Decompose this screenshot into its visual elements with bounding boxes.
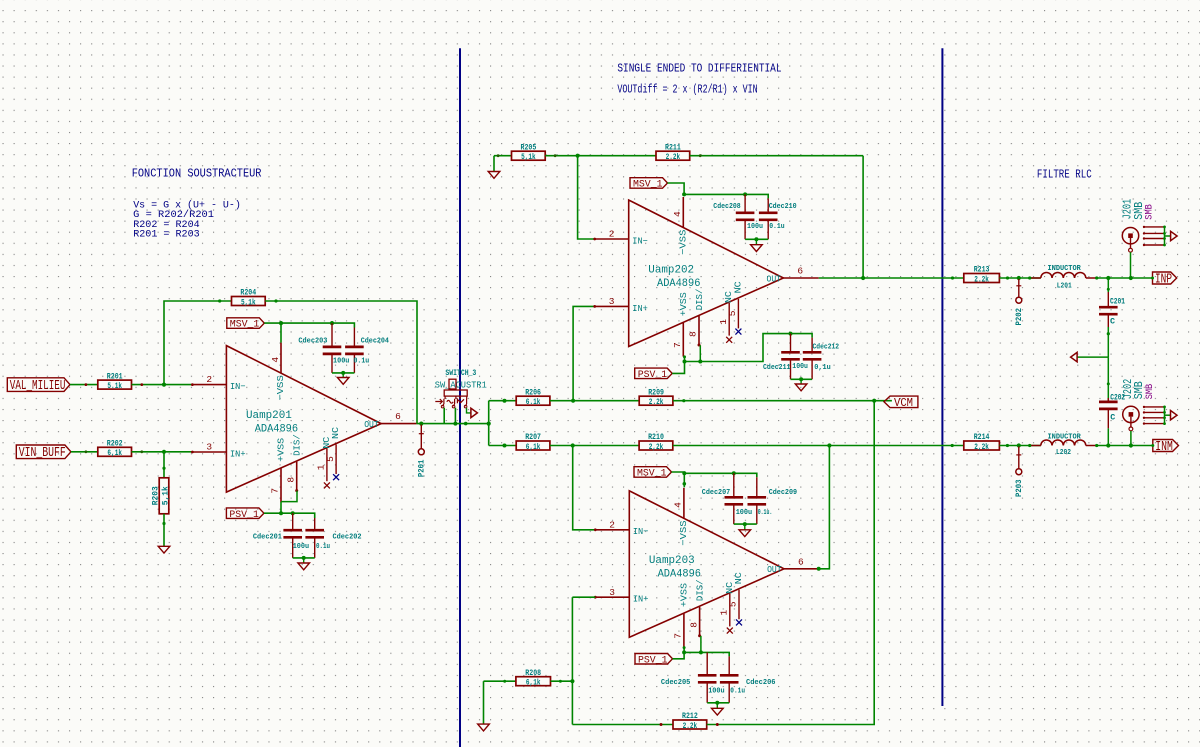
svg-text:6.1k: 6.1k: [526, 397, 541, 407]
svg-text:PSV_1: PSV_1: [638, 370, 668, 381]
svg-text:DIS/: DIS/: [292, 434, 303, 456]
svg-text:+VSS: +VSS: [679, 583, 690, 607]
junction MSV pin4: [279, 321, 283, 325]
svg-text:100u: 100u: [708, 688, 725, 696]
svg-text:VIN_BUFF: VIN_BUFF: [19, 446, 66, 461]
resistor R207: [516, 433, 550, 452]
svg-text:3: 3: [609, 296, 615, 307]
svg-text:C: C: [1110, 412, 1115, 422]
ground below Cdec201/202: [303, 558, 305, 563]
power flag MSV_1 (Uamp202): [630, 178, 668, 191]
svg-text:6: 6: [798, 556, 804, 567]
junction pin7 PSV 203: [682, 650, 686, 654]
svg-text:IN−: IN−: [632, 235, 648, 246]
wire vertical between line A and line B: [488, 401, 490, 446]
svg-text:R214: R214: [974, 433, 990, 442]
svg-text:5: 5: [325, 456, 336, 462]
wire switch pin2 down: [454, 408, 456, 424]
wire switch pin3 to arrow: [467, 408, 471, 413]
capacitor Cdec202: [305, 518, 324, 558]
net label INP: [1153, 272, 1177, 287]
svg-text:R201 = R203: R201 = R203: [133, 229, 200, 240]
wire line A left: [489, 400, 517, 402]
junction line B left: [503, 444, 507, 448]
svg-text:INM: INM: [1155, 440, 1173, 455]
svg-text:NC: NC: [733, 572, 744, 584]
wire R211 to feedback vertical: [690, 155, 863, 157]
svg-text:OUT: OUT: [364, 419, 379, 430]
svg-text:DIS/: DIS/: [695, 579, 706, 601]
resistor R212: [673, 712, 707, 731]
wire switch pin1 down: [443, 408, 445, 424]
junction C202 bottom: [1106, 443, 1110, 447]
svg-text:Cdec201: Cdec201: [253, 534, 283, 542]
svg-text:MSV_1: MSV_1: [637, 469, 667, 480]
op-amp Uamp201 ADA4896: [191, 343, 416, 503]
svg-text:R204: R204: [240, 289, 256, 298]
ground below Cdec208/210: [755, 239, 757, 244]
svg-text:2.2k: 2.2k: [974, 274, 989, 284]
wire R214 to INM: [999, 445, 1040, 447]
junction Cdec203 top: [330, 321, 334, 325]
wire J202 shield: [1164, 407, 1166, 424]
svg-text:OUT: OUT: [767, 564, 782, 575]
svg-text:ADA4896: ADA4896: [657, 278, 700, 290]
svg-text:Cdec209: Cdec209: [769, 489, 797, 497]
wire OUT of Uamp203: [819, 446, 829, 569]
section divider line right: [941, 48, 943, 706]
junction Cdec208 top: [743, 192, 747, 196]
power flag PSV_1 (Uamp201): [226, 508, 264, 521]
resistor R206: [516, 388, 550, 407]
svg-text:IN+: IN+: [230, 448, 246, 459]
wire C202 bottom to INM line: [1107, 428, 1109, 445]
svg-text:6,1k: 6,1k: [526, 678, 541, 688]
svg-text:NC: NC: [732, 281, 743, 293]
junction OUT 203: [817, 567, 821, 571]
resistor R204: [232, 289, 266, 308]
test point P202: [1014, 279, 1024, 326]
wire IN+ node (203): [572, 596, 595, 598]
svg-text:100u: 100u: [333, 358, 349, 366]
wire feedback up to R204: [164, 301, 232, 385]
svg-text:−VSS: −VSS: [678, 520, 689, 546]
svg-text:0.1u: 0.1u: [316, 543, 330, 551]
junction pin7 PSV 202: [683, 360, 687, 364]
svg-text:3: 3: [609, 587, 615, 598]
svg-text:PSV_1: PSV_1: [229, 510, 259, 521]
junction J202 drop: [1129, 443, 1133, 447]
svg-text:ADA4896: ADA4896: [658, 569, 701, 581]
inductor L201: [1041, 272, 1086, 278]
wire R206 to R209: [550, 400, 639, 402]
svg-text:Cdec204: Cdec204: [361, 337, 390, 345]
junction Uamp203 IN- tap: [571, 443, 575, 447]
svg-text:R201: R201: [107, 372, 123, 381]
svg-text:0.1u: 0.1u: [354, 358, 370, 366]
svg-text:VOUTdiff = 2 x (R2/R1) x VIN: VOUTdiff = 2 x (R2/R1) x VIN: [617, 83, 757, 96]
wire R207 to R210: [550, 445, 639, 447]
wire R213 to INP: [999, 277, 1040, 279]
svg-text:+VSS: +VSS: [678, 292, 689, 316]
junction Cdec207 top: [732, 471, 736, 475]
svg-text:ADA4896: ADA4896: [255, 423, 298, 435]
capacitor C202: [1099, 398, 1118, 428]
svg-text:100u: 100u: [747, 223, 763, 231]
wire R208 line: [484, 680, 516, 682]
svg-text:2.2k: 2.2k: [666, 152, 681, 162]
svg-text:2,2k: 2,2k: [974, 442, 989, 452]
wire caps bottom to ground (left PSV): [293, 557, 315, 559]
wire R204 to OUT node: [265, 301, 417, 424]
wire ground to R205: [494, 155, 512, 157]
wire IN- tap down to pin 2 (203): [573, 446, 596, 530]
svg-text:SW_ACUSTR1: SW_ACUSTR1: [435, 380, 487, 390]
svg-text:100u: 100u: [792, 363, 808, 371]
svg-text:SINGLE ENDED TO DIFFERIENTIAL: SINGLE ENDED TO DIFFERIENTIAL: [617, 63, 781, 76]
inductor L202: [1041, 440, 1086, 446]
svg-text:P201: P201: [417, 460, 427, 478]
svg-text:8: 8: [688, 622, 699, 628]
net label VCM: [884, 396, 918, 410]
junction R203 tap: [162, 450, 166, 454]
wire R203 to ground: [163, 514, 165, 547]
power flag PSV_1 (Uamp203): [635, 654, 673, 667]
junction Cdec201 top: [291, 511, 295, 515]
svg-text:Cdec207: Cdec207: [702, 489, 730, 497]
resistor R203: [151, 478, 171, 514]
junction P203 tap: [1017, 443, 1021, 447]
wire caps bottom (203 PSV): [707, 702, 729, 704]
svg-text:Uamp202: Uamp202: [648, 264, 694, 276]
svg-text:INDUCTOR: INDUCTOR: [1048, 434, 1082, 442]
ground below Cdec205/206: [716, 703, 718, 709]
svg-text:R211: R211: [665, 143, 681, 152]
ground below Cdec203/204: [342, 373, 344, 378]
wire pin7/pin8 to PSV rail: [281, 491, 297, 502]
svg-text:5,1k: 5,1k: [241, 297, 256, 307]
svg-text:5,1k: 5,1k: [160, 486, 170, 505]
svg-text:3: 3: [206, 442, 212, 453]
svg-text:Uamp203: Uamp203: [649, 555, 695, 567]
ground below Cdec211/212: [800, 379, 802, 384]
junction Uamp202 IN- feedback node: [576, 154, 580, 158]
resistor R214: [964, 433, 1000, 452]
junction switch pin2: [453, 422, 457, 426]
svg-text:100u: 100u: [293, 543, 309, 551]
svg-text:R208: R208: [525, 669, 541, 678]
svg-text:VAL_MILIEU: VAL_MILIEU: [10, 379, 66, 394]
svg-text:+VSS: +VSS: [276, 437, 287, 461]
wire OUT of Uamp202 to INP line: [819, 277, 964, 279]
svg-text:FONCTION SOUSTRACTEUR: FONCTION SOUSTRACTEUR: [132, 168, 262, 181]
svg-text:2: 2: [609, 229, 615, 240]
svg-text:R202: R202: [107, 440, 123, 449]
wire R205 to R211: [545, 155, 656, 157]
svg-text:0,1u: 0,1u: [814, 364, 831, 372]
svg-text:R207: R207: [525, 433, 541, 442]
capacitor Cdec204: [345, 328, 364, 373]
capacitor Cdec207: [725, 473, 744, 524]
test point P201: [417, 425, 427, 478]
capacitor Cdec212: [803, 338, 822, 380]
svg-text:1: 1: [719, 610, 730, 616]
svg-text:0.1u: 0.1u: [769, 223, 785, 231]
resistor R201: [98, 372, 132, 391]
resistor R211: [656, 143, 690, 162]
svg-text:R213: R213: [974, 266, 990, 275]
junction line A left: [503, 399, 507, 403]
wire OUT of Uamp201: [416, 423, 488, 425]
svg-text:DIS/: DIS/: [694, 288, 705, 310]
switch SWITCH_3 SW_ACUSTR1: [435, 369, 487, 408]
svg-text:4: 4: [270, 357, 281, 363]
svg-text:PSV_1: PSV_1: [638, 655, 668, 666]
junction MSV line 203: [682, 471, 686, 475]
mid reference arrow: [1071, 352, 1078, 361]
svg-text:R210: R210: [648, 433, 664, 442]
wire MSV_1 to pin4 and caps: [264, 323, 354, 327]
wire R202 to IN+ node: [132, 451, 193, 453]
svg-text:MSV_1: MSV_1: [230, 320, 259, 331]
svg-text:R206: R206: [525, 388, 541, 397]
svg-text:6,1k: 6,1k: [107, 448, 122, 458]
wire C201 bottom to mid node: [1107, 327, 1109, 357]
capacitor Cdec209: [748, 477, 767, 524]
svg-text:INDUCTOR: INDUCTOR: [1048, 265, 1082, 273]
junction Uamp203 OUT tap: [827, 443, 831, 447]
svg-text:7: 7: [672, 342, 683, 348]
wire R201 to IN- node: [132, 384, 193, 386]
wire R212 right up to VCM node: [707, 401, 875, 725]
svg-text:SMB: SMB: [1145, 384, 1156, 400]
svg-text:OUT: OUT: [767, 273, 782, 284]
wire caps bottom (202 MSV): [745, 238, 768, 240]
svg-text:5,1k: 5,1k: [521, 152, 536, 162]
svg-text:7: 7: [673, 633, 684, 639]
svg-text:−VSS: −VSS: [275, 375, 286, 401]
wire R208 right: [551, 680, 573, 682]
svg-text:5: 5: [727, 310, 738, 316]
svg-text:0.1u.: 0.1u.: [758, 509, 773, 517]
wire mid node down to C202: [1107, 357, 1109, 402]
capacitor Cdec208: [736, 194, 755, 239]
svg-text:100u: 100u: [736, 509, 753, 517]
unconnected arrow at switch: [471, 408, 478, 417]
svg-text:7: 7: [270, 488, 281, 494]
wire VAL_MILIEU to R201: [70, 384, 98, 386]
shield arrow J202: [1171, 411, 1178, 420]
svg-text:2: 2: [206, 374, 212, 385]
junction IN- node: [162, 383, 166, 387]
svg-text:2.2k: 2.2k: [649, 397, 664, 407]
wire PSV rail (202): [672, 357, 684, 374]
svg-text:IN+: IN+: [632, 303, 648, 314]
capacitor C201: [1099, 292, 1118, 327]
ground below R203: [158, 546, 170, 553]
ground below R208: [478, 724, 490, 731]
wire J202 pin down: [1130, 431, 1132, 446]
wire IN+ tap up to pin 3: [573, 306, 595, 400]
net label INM: [1153, 440, 1179, 455]
power flag PSV_1 (Uamp202): [635, 368, 673, 381]
svg-text:L201: L201: [1057, 283, 1072, 291]
svg-text:R209: R209: [648, 388, 664, 397]
svg-text:L202: L202: [1056, 449, 1071, 457]
wire caps bottom (203 MSV): [734, 523, 757, 525]
svg-text:Cdec203: Cdec203: [298, 337, 327, 345]
net label VAL_MILIEU: [7, 378, 70, 394]
power flag MSV_1 (Uamp201): [227, 318, 264, 331]
junction MSV line: [682, 192, 686, 196]
svg-text:Cdec212: Cdec212: [813, 344, 840, 352]
wire line B left: [489, 445, 517, 447]
capacitor Cdec201: [283, 513, 302, 558]
svg-text:Cdec211: Cdec211: [763, 364, 791, 372]
junction pin8 drop 203: [699, 650, 703, 654]
svg-text:Cdec206: Cdec206: [746, 679, 776, 687]
svg-text:NC: NC: [330, 427, 341, 439]
wire R210 to INM line: [673, 445, 964, 447]
wire IN- node down to pin 2: [578, 156, 595, 239]
connector J202 SMB: [1122, 379, 1165, 431]
svg-text:SWITCH_3: SWITCH_3: [445, 369, 476, 378]
junction R208 node: [570, 679, 574, 683]
svg-text:1: 1: [718, 319, 729, 325]
op-amp Uamp202 ADA4896: [593, 197, 818, 357]
svg-text:IN+: IN+: [633, 594, 649, 605]
svg-text:6: 6: [395, 411, 401, 422]
svg-text:1: 1: [316, 464, 327, 470]
svg-text:C201: C201: [1110, 296, 1125, 306]
resistor R213: [964, 266, 1000, 285]
wire feedback vertical to OUT: [862, 156, 864, 278]
svg-text:Cdec210: Cdec210: [769, 203, 797, 211]
wire R208 to ground: [483, 681, 485, 724]
svg-text:5: 5: [728, 601, 739, 607]
section divider line left: [459, 48, 461, 747]
svg-text:6: 6: [797, 266, 803, 277]
ground at R205: [493, 156, 495, 172]
junction Cdec211 top: [789, 332, 793, 336]
capacitor Cdec211: [781, 334, 800, 380]
svg-text:R203: R203: [151, 486, 161, 505]
svg-text:2,2k: 2,2k: [649, 442, 664, 452]
svg-text:Cdec205: Cdec205: [661, 679, 691, 687]
svg-text:8: 8: [285, 477, 296, 483]
resistor R210: [639, 433, 673, 452]
junction feedback at OUT 202: [861, 276, 865, 280]
junction PSV pin7: [279, 511, 283, 515]
svg-text:Cdec208: Cdec208: [713, 203, 740, 211]
junction pin8 drop 202: [698, 360, 702, 364]
test point P203: [1014, 447, 1024, 498]
svg-text:R205: R205: [521, 143, 537, 152]
svg-text:FILTRE RLC: FILTRE RLC: [1037, 169, 1092, 182]
shield arrow J201: [1171, 231, 1178, 240]
junction Uamp202 IN+ tap: [571, 399, 575, 403]
wire J201 shield: [1164, 227, 1166, 245]
capacitor Cdec206: [720, 656, 739, 702]
svg-text:C: C: [1110, 316, 1115, 326]
junction OUT node to lines A/B: [487, 422, 491, 426]
svg-text:IN−: IN−: [230, 381, 246, 392]
resistor R208: [516, 669, 551, 688]
junction R212 feedback tap: [872, 399, 876, 403]
junction P202 tap: [1017, 276, 1021, 280]
wire R209 to VCM: [673, 400, 892, 402]
junction C201 top: [1106, 276, 1110, 280]
wire PSV rail (203): [673, 647, 685, 658]
svg-text:VCM: VCM: [894, 396, 913, 410]
svg-text:5.1k: 5.1k: [107, 381, 122, 391]
resistor R209: [639, 388, 673, 407]
svg-text:P203: P203: [1014, 480, 1024, 498]
junction J201 drop: [1129, 276, 1133, 280]
svg-text:INP: INP: [1155, 272, 1172, 287]
wire mid node to left arrow: [1077, 356, 1108, 358]
wire MSV_1 to pin4 and caps (203): [672, 472, 685, 487]
resistor R202: [98, 440, 132, 459]
wire J201 pin down: [1130, 252, 1132, 278]
ground below Cdec207/209: [744, 524, 746, 530]
svg-text:2.2k: 2.2k: [683, 721, 698, 731]
capacitor Cdec210: [759, 198, 778, 239]
svg-text:Uamp201: Uamp201: [246, 410, 292, 422]
svg-text:0.1u: 0.1u: [730, 688, 745, 696]
svg-text:4: 4: [673, 502, 684, 508]
wire IN+ vertical down to R208/R212: [571, 597, 573, 724]
svg-text:Cdec202: Cdec202: [333, 534, 362, 542]
svg-text:R212: R212: [682, 712, 698, 721]
junction P201 tap: [419, 422, 423, 426]
svg-text:8: 8: [688, 331, 699, 337]
net label VIN_BUFF: [16, 445, 71, 461]
wire caps bottom to ground: [332, 372, 354, 374]
resistor R205: [512, 143, 546, 162]
svg-text:MSV_1: MSV_1: [633, 180, 663, 191]
power flag MSV_1 (Uamp203): [634, 467, 672, 480]
wire caps bottom (202 PSV): [791, 378, 813, 380]
svg-text:SMB: SMB: [1145, 204, 1156, 220]
svg-text:4: 4: [672, 211, 683, 217]
op-amp Uamp203 ADA4896: [594, 488, 819, 648]
wire R212 line left: [572, 724, 673, 726]
capacitor Cdec203: [323, 323, 342, 373]
capacitor Cdec205: [698, 652, 717, 702]
svg-text:−VSS: −VSS: [678, 229, 689, 255]
svg-text:P202: P202: [1014, 308, 1024, 326]
svg-text:2: 2: [609, 519, 615, 530]
svg-text:6,1k: 6,1k: [526, 442, 541, 452]
connector J201 SMB: [1122, 199, 1165, 252]
wire down to R203: [163, 452, 165, 478]
svg-text:IN−: IN−: [633, 526, 649, 537]
wire MSV_1 to pin4 and caps: [668, 183, 685, 196]
wire INP down through C201: [1107, 278, 1109, 292]
wire VIN_BUFF to R202: [71, 451, 98, 453]
